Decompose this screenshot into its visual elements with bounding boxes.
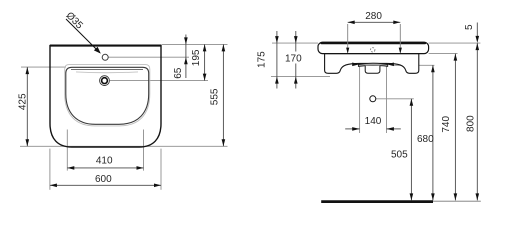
svg-text:740: 740 <box>441 116 452 133</box>
leader line for tap hole dia <box>66 19 100 53</box>
dim 140 line right <box>387 128 401 130</box>
tap hole (side, hidden line circle) <box>371 48 375 52</box>
svg-text:5: 5 <box>464 24 475 30</box>
dim 800 arrows <box>476 43 480 50</box>
dim 425 arrows <box>26 67 30 74</box>
extension line: 140 left <box>359 66 361 133</box>
dim 195 arrows <box>203 44 207 51</box>
dim 140 line left <box>345 128 359 130</box>
svg-text:600: 600 <box>95 174 112 185</box>
extension line: basin bottom (425/555 bottom ref) <box>20 145 228 147</box>
dim 505 line <box>410 99 412 201</box>
floor line thin <box>433 200 481 202</box>
floor line thick <box>321 200 433 203</box>
dim 5 arrow (down, outside) <box>476 36 480 43</box>
svg-text:505: 505 <box>391 149 408 160</box>
tap hole <box>102 54 108 60</box>
extension line: inner rim top (425 top ref) <box>21 66 66 68</box>
dim 555 arrows <box>222 44 226 51</box>
dim 170 line <box>295 31 297 89</box>
dim 680 arrows <box>431 65 435 72</box>
svg-text:175: 175 <box>257 51 268 68</box>
dim 65 line <box>185 35 187 79</box>
svg-text:170: 170 <box>285 54 302 65</box>
dim 600 line <box>50 184 161 186</box>
svg-text:65: 65 <box>173 67 184 79</box>
dim 5 upper line <box>476 23 478 40</box>
extension line: 600 left <box>49 149 51 190</box>
svg-text:680: 680 <box>417 134 434 145</box>
extension line: deck top left (175/170 top ref) <box>272 42 318 44</box>
extension line: 410 right <box>143 130 145 171</box>
svg-text:Ø35: Ø35 <box>64 10 85 31</box>
extension line: basin top right (65/195/555 top ref) <box>162 43 228 45</box>
extension line: underside bottom left (175/170 bottom ref) <box>271 76 330 78</box>
overflow hole ring <box>102 78 108 84</box>
extension line: 140 right <box>386 66 388 133</box>
dim 140 arrows (outside) <box>352 127 359 131</box>
basin outer body <box>50 46 161 147</box>
svg-text:425: 425 <box>17 93 28 110</box>
dim 280 extension right with arrow <box>399 24 401 53</box>
basin top edge thick <box>50 45 161 47</box>
extension line: flange level right (680 ref) <box>394 64 435 66</box>
basin bowl back edge line <box>71 69 143 71</box>
dim 410 line <box>67 167 143 169</box>
svg-text:800: 800 <box>465 115 476 132</box>
svg-text:555: 555 <box>210 88 221 105</box>
svg-text:195: 195 <box>191 49 202 66</box>
basin bowl water ledge line <box>76 71 138 74</box>
dim 175 line <box>276 31 278 89</box>
extension line: tap hole level <box>108 56 189 58</box>
dim 740 arrows <box>454 54 458 61</box>
dim 680 line <box>432 65 434 200</box>
dim 425 line <box>26 67 28 146</box>
basin bowl edge (dark) <box>66 67 149 124</box>
dim 280 arrows <box>348 21 355 25</box>
svg-text:280: 280 <box>365 11 382 22</box>
underside of bowl (side profile) <box>325 54 419 74</box>
basin bowl rim outline (light) <box>65 65 150 126</box>
extension line: deck top right (5/800 ref) <box>429 42 481 44</box>
deck slab <box>318 42 429 53</box>
dim 280 line <box>348 21 401 23</box>
dim 505 arrows <box>410 99 414 106</box>
deck top thick edge <box>322 42 426 44</box>
drain flange bar <box>358 63 387 66</box>
dim 740 line <box>454 54 456 201</box>
dim 600 arrows <box>50 184 57 188</box>
dim 175 arrows (outside) <box>275 36 279 43</box>
dim 170 arrows (outside) <box>294 36 298 43</box>
extension line: overflow level <box>110 80 208 82</box>
trap hole circle <box>370 96 376 102</box>
extension line: 600 right <box>160 149 162 190</box>
extension line: deck bottom right (740 ref) <box>429 53 458 55</box>
drain flange arrow right <box>387 63 394 67</box>
leader arrowhead <box>94 47 101 54</box>
extension line: 410 left <box>66 130 68 171</box>
dim 195 line <box>204 44 206 80</box>
drain body box <box>365 66 380 74</box>
svg-text:140: 140 <box>365 116 382 127</box>
svg-text:410: 410 <box>96 156 113 167</box>
dim 280 extension left with arrow <box>347 24 349 53</box>
dim 555 line <box>222 44 224 146</box>
dim 65 arrows (outside) <box>184 37 188 44</box>
dim 800 line <box>476 43 478 200</box>
label 170 background <box>285 52 304 64</box>
dim 410 arrows <box>67 166 74 170</box>
drain flange arrow left <box>352 63 359 67</box>
extension line: trap level (505 ref) <box>376 98 414 100</box>
overflow hole outer <box>100 76 110 86</box>
